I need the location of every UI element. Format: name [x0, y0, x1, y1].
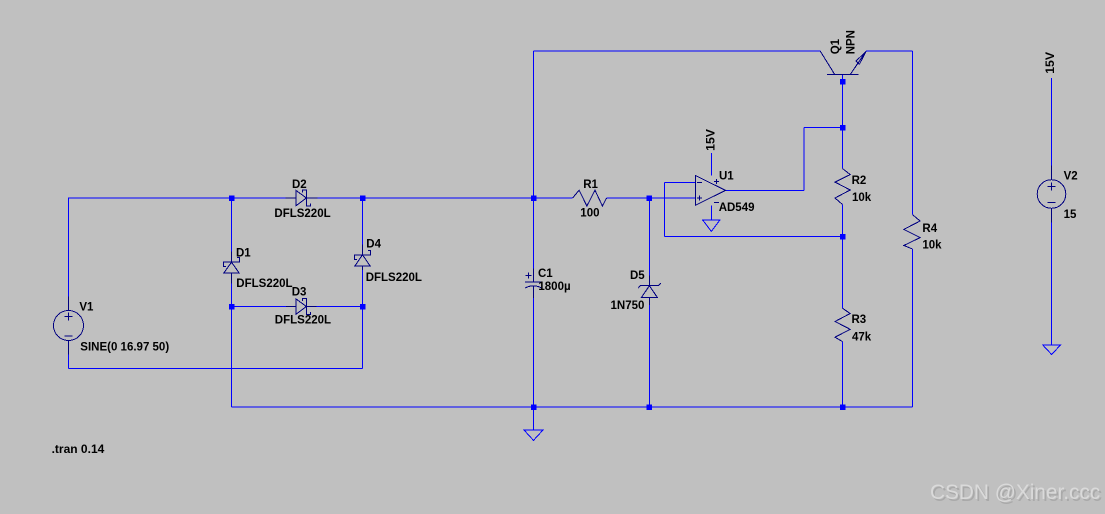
diode D3 — [286, 299, 317, 315]
node H junction — [840, 234, 846, 240]
wire bridge right branch lower riser — [362, 307, 364, 369]
node C junction — [230, 194, 232, 196]
diode D1 — [223, 252, 239, 284]
wire Q1 emitter to R4 branch — [866, 50, 913, 52]
wire R1 right to node D — [607, 197, 650, 199]
svg-text:15: 15 — [1064, 209, 1077, 221]
wire node C down to C1 top — [533, 198, 535, 269]
svg-text:D5: D5 — [630, 270, 645, 282]
wire Q1 base down to node G — [842, 74, 844, 127]
svg-text:NPN: NPN — [845, 30, 857, 54]
svg-text:C1: C1 — [538, 268, 553, 280]
resistor R4 — [904, 215, 920, 249]
svg-text:15V: 15V — [704, 128, 718, 151]
ground under V2 — [1043, 345, 1061, 355]
wire feedback vertical drop — [664, 183, 666, 237]
wire output to node G — [804, 127, 843, 129]
diode D2 — [286, 190, 318, 206]
wire R4 branch upper vertical — [912, 51, 914, 214]
resistor R1 — [573, 190, 607, 206]
wire D2 cathode to node B — [318, 197, 363, 199]
svg-text:SINE(0 16.97 50): SINE(0 16.97 50) — [80, 342, 169, 354]
node D junction — [647, 195, 653, 201]
diode D4 — [354, 244, 370, 270]
svg-text:Q1: Q1 — [830, 38, 842, 54]
zener diode D5 — [638, 276, 661, 305]
wire R3 bottom to rail — [842, 342, 844, 407]
wire D4 anode to node F — [362, 270, 364, 306]
ground under op-amp negative supply — [703, 220, 720, 232]
wire op-amp positive supply 15V — [711, 153, 713, 175]
svg-text:10k: 10k — [852, 192, 872, 204]
svg-text:15V: 15V — [1043, 51, 1057, 74]
node B junction — [360, 195, 366, 201]
watermark CSDN @Xiner.ccc — [930, 481, 1102, 506]
wire V2 bottom vertical — [1051, 223, 1053, 345]
wire node B down to D4 cathode — [362, 198, 364, 244]
wire V2 top vertical -15V net — [1051, 78, 1053, 166]
wire op-amp negative supply stub — [711, 205, 713, 220]
wire node D to op-amp noninverting input — [649, 197, 695, 199]
svg-text:D3: D3 — [292, 287, 307, 299]
wire top-left horizontal V1 to node A — [68, 197, 232, 199]
wire R2 bottom to node H — [842, 205, 844, 237]
node E junction — [229, 304, 235, 310]
wire D1 anode to node E — [231, 284, 233, 307]
node rail-R3 junction — [840, 404, 846, 410]
transistor Q1 — [820, 51, 866, 74]
wire node E to D3 anode — [232, 306, 287, 308]
svg-text:100: 100 — [580, 208, 599, 220]
wire node E down to bottom rail — [231, 307, 233, 408]
wire op-amp output horizontal — [726, 189, 805, 191]
wire C1 bottom to rail — [533, 298, 535, 407]
voltage source V2 — [1037, 166, 1066, 223]
svg-text:AD549: AD549 — [719, 202, 755, 214]
wire V1 top vertical — [68, 198, 70, 297]
svg-text:D2: D2 — [292, 179, 307, 191]
svg-text:R3: R3 — [852, 314, 867, 326]
svg-text:U1: U1 — [719, 171, 734, 183]
svg-text:1N750: 1N750 — [611, 300, 645, 312]
svg-text:.tran 0.14: .tran 0.14 — [52, 442, 105, 456]
wire D5 anode to rail — [648, 305, 650, 407]
svg-text:R2: R2 — [852, 175, 867, 187]
wire bottom ground rail — [232, 406, 913, 408]
wire R4 bottom to rail — [912, 249, 914, 407]
wire collector rail horizontal to Q1 — [534, 50, 821, 52]
node A junction — [229, 195, 235, 201]
svg-text:D1: D1 — [236, 248, 251, 260]
node Q1 base pin junction — [840, 79, 846, 85]
op-amp U1 — [695, 175, 725, 205]
wire V1 bottom vertical — [68, 355, 70, 369]
wire node A to D2 anode — [232, 197, 286, 199]
resistor R2 — [835, 169, 850, 205]
svg-text:D4: D4 — [366, 239, 381, 251]
svg-text:DFLS220L: DFLS220L — [366, 272, 422, 284]
svg-text:47k: 47k — [852, 332, 872, 344]
wire collector rail vertical at node C — [533, 51, 535, 198]
node rail-C1 junction — [531, 404, 537, 410]
wire node D down to D5 cathode — [648, 198, 650, 276]
voltage source V1 — [54, 297, 84, 355]
svg-text:V1: V1 — [79, 302, 94, 314]
wire node H to R3 top — [842, 237, 844, 309]
svg-text:R1: R1 — [583, 179, 598, 191]
wire feedback horizontal to node H — [665, 236, 843, 238]
ground under bottom rail at C1 — [524, 430, 543, 440]
svg-text:DFLS220L: DFLS220L — [274, 208, 330, 220]
svg-text:10k: 10k — [922, 240, 942, 252]
wire feedback from op-amp inverting input — [665, 182, 696, 184]
wire D3 cathode to node F — [317, 306, 363, 308]
wire node G to R2 top — [842, 128, 844, 169]
svg-text:CSDN @Xiner.ccc: CSDN @Xiner.ccc — [930, 481, 1100, 504]
node G junction — [840, 125, 846, 131]
wire ground stub below rail at C1 — [533, 407, 535, 430]
resistor R3 — [835, 308, 850, 341]
svg-text:1800µ: 1800µ — [538, 281, 570, 293]
wire V1 bottom horizontal to bridge right branch — [69, 367, 363, 369]
wire node A down to D1 cathode — [231, 198, 233, 252]
svg-text:DFLS220L: DFLS220L — [236, 278, 292, 290]
svg-text:DFLS220L: DFLS220L — [275, 315, 331, 327]
svg-text:V2: V2 — [1064, 171, 1078, 183]
node rail-D5 junction — [647, 404, 653, 410]
wire op-amp output riser — [803, 128, 805, 191]
wire node B to node C — [363, 197, 534, 199]
svg-text:R4: R4 — [922, 223, 937, 235]
capacitor C1 — [525, 269, 541, 299]
wire node C to R1 left — [534, 197, 573, 199]
node F junction — [360, 304, 366, 310]
